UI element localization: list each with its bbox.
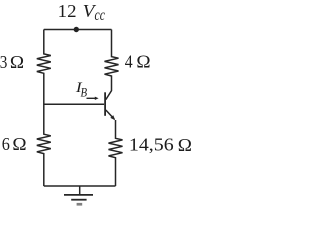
svg-text:Ω: Ω [178, 135, 192, 155]
svg-text:14,56: 14,56 [129, 134, 174, 154]
svg-text:12: 12 [58, 1, 77, 21]
svg-text:Ω: Ω [10, 52, 24, 72]
svg-text:Ω: Ω [12, 134, 26, 154]
svg-text:cc: cc [95, 7, 105, 24]
svg-text:3: 3 [0, 52, 7, 72]
svg-text:6: 6 [2, 134, 10, 154]
svg-text:4: 4 [125, 52, 133, 72]
svg-text:Ω: Ω [136, 52, 150, 72]
svg-text:B: B [81, 85, 88, 100]
